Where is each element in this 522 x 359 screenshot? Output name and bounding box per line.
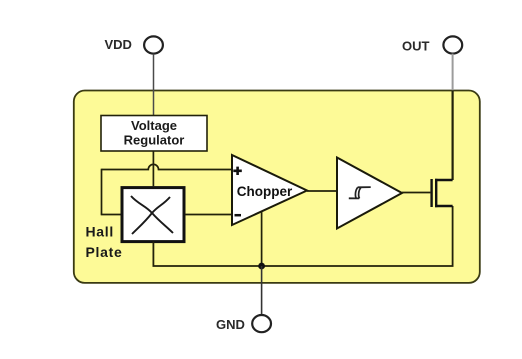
- transistor Q1 (output NMOS): [430, 179, 432, 207]
- svg-text:Plate: Plate: [86, 244, 123, 260]
- junction dot: [258, 263, 265, 270]
- svg-text:OUT: OUT: [402, 39, 430, 54]
- wire schmitt output to gate: [402, 192, 430, 194]
- svg-text:Hall: Hall: [86, 224, 114, 240]
- pin - (inverting input marker): [235, 214, 242, 217]
- wire OUT to drain: [452, 54, 454, 91]
- wire hall left terminal to chopper + input (with hop over vertical wire): [102, 164, 233, 169]
- voltage regulator U1: [101, 116, 207, 152]
- drain tap: [435, 179, 453, 181]
- svg-text:VDD: VDD: [105, 37, 132, 52]
- hall plate X1: [122, 188, 184, 242]
- pin VDD terminal circle: [144, 36, 163, 53]
- IC body (yellow block): [74, 91, 480, 283]
- svg-text:Voltage: Voltage: [131, 118, 177, 133]
- schmitt trigger A2: [337, 158, 402, 229]
- hall plate cross stroke 1: [131, 196, 173, 233]
- wire into hall plate left: [101, 214, 121, 216]
- wire chopper output to schmitt input: [307, 190, 337, 192]
- pin + (non-inverting input marker): [233, 167, 242, 175]
- wire to GND pin: [261, 266, 263, 315]
- wire hall bottom to ground rail: [153, 206, 452, 266]
- hall plate cross stroke 2: [132, 197, 170, 234]
- wire left branch down: [101, 169, 103, 215]
- pin OUT terminal circle: [443, 36, 462, 53]
- wire VDD to regulator: [153, 54, 155, 116]
- wire hall right terminal to chopper - input: [185, 214, 232, 216]
- source tap: [435, 205, 453, 207]
- svg-text:Chopper: Chopper: [237, 184, 293, 199]
- svg-text:GND: GND: [216, 317, 245, 332]
- op-amp chopper A1: [232, 155, 307, 225]
- wire chopper ground to rail: [261, 212, 263, 266]
- pin GND terminal circle: [252, 315, 271, 332]
- hysteresis symbol: [349, 197, 359, 199]
- svg-text:Regulator: Regulator: [124, 133, 185, 148]
- wire regulator to hall plate top: [152, 151, 154, 186]
